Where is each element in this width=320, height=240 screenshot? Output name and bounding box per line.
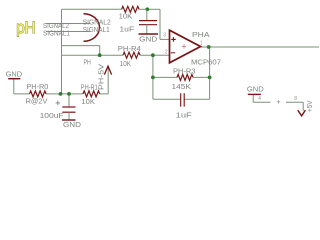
- net label PH: [84, 58, 91, 67]
- wire: [160, 38, 170, 40]
- svg-text:10K: 10K: [81, 97, 95, 106]
- supply +5V arrow: [298, 110, 306, 116]
- svg-text:GND: GND: [247, 84, 264, 93]
- svg-text:GND: GND: [63, 120, 81, 129]
- wire: [107, 66, 109, 94]
- svg-text:10K: 10K: [119, 12, 133, 21]
- wire: [253, 101, 270, 103]
- label GND: [247, 84, 264, 93]
- resistor PH-R4: [123, 52, 140, 58]
- label PH-R0: [26, 82, 48, 91]
- pin name SIGNAL2: [83, 18, 111, 27]
- capacitor 100uF: [62, 107, 75, 112]
- value 1uF: [119, 25, 135, 34]
- label PH-R1: [81, 82, 98, 91]
- label +5V: [307, 100, 314, 112]
- ground under 100uF: [62, 119, 76, 121]
- pin number 3: [163, 33, 166, 39]
- value 100uF: [40, 111, 65, 120]
- wire: [286, 101, 303, 103]
- label GND: [6, 69, 22, 78]
- ground under 1uF: [139, 33, 159, 35]
- svg-text:GND: GND: [6, 69, 22, 78]
- label MCP607: [191, 58, 221, 67]
- pH logo: [16, 18, 36, 37]
- svg-text:2: 2: [165, 50, 168, 56]
- svg-text:PHA: PHA: [192, 30, 210, 39]
- value R@2V: [26, 96, 48, 105]
- wire: [209, 47, 211, 99]
- wire: [200, 46, 319, 48]
- wire: [46, 31, 90, 33]
- svg-text:SIGNAL1: SIGNAL1: [83, 25, 110, 34]
- svg-text:8: 8: [294, 96, 297, 102]
- node junction: [59, 92, 63, 96]
- wire: [140, 54, 170, 56]
- pin number 1: [200, 40, 203, 46]
- ground GND right: [248, 93, 261, 95]
- value 10K: [81, 97, 95, 106]
- svg-text:PH-5V: PH-5V: [98, 64, 105, 90]
- pin number 2: [165, 50, 168, 56]
- wire: [139, 8, 147, 10]
- wire: [152, 55, 154, 99]
- node junction: [207, 45, 211, 49]
- wire: [62, 45, 100, 47]
- wire: [61, 9, 63, 55]
- wire: [46, 93, 83, 95]
- wire: [68, 112, 70, 119]
- label PHA: [192, 30, 210, 39]
- node junction: [151, 53, 155, 57]
- ground GND top-left: [8, 78, 20, 80]
- svg-text:4: 4: [258, 96, 261, 102]
- wire: [159, 9, 161, 39]
- svg-text:MCP607: MCP607: [191, 58, 221, 67]
- resistor 10K top: [122, 6, 139, 12]
- pin name SIGNAL1: [83, 25, 110, 34]
- svg-text:PH: PH: [84, 58, 91, 67]
- svg-text:+5V: +5V: [307, 100, 314, 112]
- value 10K: [120, 59, 131, 68]
- svg-text:R@2V: R@2V: [26, 96, 48, 105]
- svg-text:GND: GND: [139, 34, 157, 43]
- node junction: [98, 53, 102, 57]
- wire: [153, 98, 180, 100]
- value 1uF: [176, 111, 193, 120]
- wire: [252, 95, 254, 102]
- connector X1 arc: [84, 14, 100, 42]
- wire: [14, 93, 30, 95]
- wire: [146, 9, 148, 20]
- polarity plus mark: [56, 101, 60, 105]
- svg-text:3: 3: [163, 33, 166, 39]
- label GND: [139, 34, 157, 43]
- resistor PH-R3: [177, 74, 193, 80]
- svg-text:pH: pH: [16, 18, 36, 37]
- resistor PH-R0: [30, 91, 47, 97]
- wire: [153, 76, 177, 78]
- wire: [61, 55, 63, 94]
- wire: [46, 23, 90, 25]
- op-amp origin cross: [182, 44, 186, 48]
- svg-text:PH-R0: PH-R0: [26, 82, 48, 91]
- label GND: [63, 120, 81, 129]
- node junction: [145, 7, 149, 11]
- op-amp U1 triangle: [170, 30, 201, 63]
- part origin cross: [277, 100, 281, 104]
- svg-text:10K: 10K: [120, 59, 131, 68]
- wire: [302, 102, 304, 111]
- supply PH-5V arrow: [104, 66, 111, 74]
- svg-text:PH-R1: PH-R1: [81, 82, 98, 91]
- svg-text:1: 1: [200, 40, 203, 46]
- node junction: [151, 76, 155, 80]
- svg-text:100uF: 100uF: [40, 111, 65, 120]
- net label SIGNAL1: [43, 28, 70, 37]
- wire: [184, 98, 209, 100]
- svg-text:PH-R4: PH-R4: [118, 44, 141, 53]
- wire: [62, 54, 124, 56]
- svg-text:SIGNAL1: SIGNAL1: [43, 28, 70, 37]
- capacitor 1uF feedback: [181, 93, 185, 106]
- svg-text:145K: 145K: [172, 82, 192, 91]
- node junction: [208, 76, 212, 80]
- resistor PH-R1: [83, 91, 100, 97]
- label PH-5V: [98, 64, 105, 90]
- wire: [68, 94, 70, 107]
- op-amp minus input mark: [171, 52, 175, 54]
- pin number 4: [258, 96, 261, 102]
- svg-text:1uF: 1uF: [176, 111, 193, 120]
- value 145K: [172, 82, 192, 91]
- wire: [62, 8, 122, 10]
- pin number 8: [294, 96, 297, 102]
- svg-text:1uF: 1uF: [119, 25, 135, 34]
- svg-text:PH-R3: PH-R3: [173, 66, 196, 75]
- wire: [147, 8, 160, 10]
- op-amp plus input mark: [171, 37, 176, 42]
- node junction: [67, 92, 71, 96]
- wire: [193, 76, 210, 78]
- wire: [99, 46, 101, 56]
- label PH-R4: [118, 44, 141, 53]
- capacitor 1uF top: [139, 21, 157, 25]
- wire: [100, 93, 109, 95]
- wire: [13, 79, 15, 94]
- net label SIGNAL2: [43, 21, 69, 30]
- label PH-R3: [173, 66, 196, 75]
- value 10K: [119, 12, 133, 21]
- wire: [146, 25, 148, 34]
